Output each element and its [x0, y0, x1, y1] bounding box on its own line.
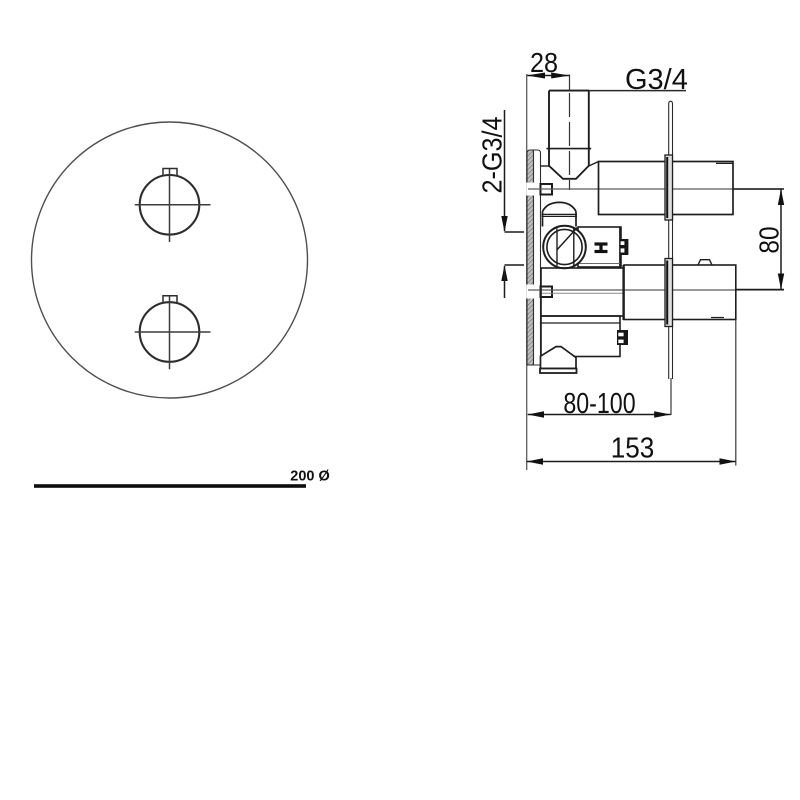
svg-text:200 Ø: 200 Ø — [290, 469, 330, 485]
mid body inner seam line — [541, 292, 623, 294]
lower handle circle — [140, 302, 200, 362]
dimension 80-100 right extension line — [670, 378, 672, 415]
faceplate circle 200mm — [32, 122, 308, 398]
dimension 28 left arrow — [527, 73, 545, 79]
lower mid body — [541, 316, 620, 357]
upper right body — [599, 162, 734, 215]
mounting tab upper — [541, 184, 553, 195]
dimension 80-100 line — [528, 414, 671, 416]
lower handle notch — [163, 296, 177, 303]
dimension 80-100 left arrow — [528, 411, 544, 417]
dimension 80-100 right arrow — [654, 411, 670, 417]
dimension 80 down arrow — [778, 274, 784, 290]
lower handle crosshair horizontal — [135, 331, 211, 333]
lower handle crosshair vertical — [169, 295, 171, 369]
wall plate (hatched) — [526, 150, 540, 365]
diameter reference line — [34, 484, 306, 488]
dimension 153 line — [527, 461, 736, 463]
dimension 153 left arrow — [527, 458, 543, 464]
dimension 2-G3/4 line lower segment — [504, 266, 506, 298]
svg-text:80: 80 — [753, 226, 785, 253]
dimension 153 right arrow — [720, 458, 736, 464]
upper handle circle — [140, 175, 200, 235]
finished wall trim plate (thin) — [665, 101, 673, 379]
port centerline upper — [528, 188, 782, 190]
pipe funnel (cone to valve body) — [549, 166, 589, 179]
dimension 28 line — [527, 75, 570, 77]
lower right body — [624, 260, 736, 320]
cartridge dome cap — [542, 202, 578, 226]
mounting tab lower — [541, 287, 553, 298]
dimension 2-G3/4 down arrow — [501, 216, 507, 232]
dimension 2-G3/4 line upper segment — [504, 110, 506, 231]
dimension 2-G3/4 tick lower — [505, 264, 525, 266]
upper handle notch — [163, 169, 177, 176]
label H (rotated) — [595, 244, 608, 252]
dimension 80 line — [780, 189, 782, 290]
G3/4 leader line — [570, 90, 686, 92]
mid body — [541, 265, 624, 320]
valve cap circle (temperature valve) — [543, 226, 586, 269]
port centerline lower — [528, 289, 784, 291]
upper handle crosshair horizontal — [135, 204, 211, 206]
lower outlet cap — [540, 347, 577, 373]
dimension 153 right extension line — [735, 320, 737, 466]
transition diagonal pipe to body — [589, 162, 599, 167]
pipe centerline (dashed) — [569, 75, 571, 91]
dimension 28 right arrow — [551, 73, 569, 79]
svg-text:2-G3/4: 2-G3/4 — [476, 116, 508, 193]
extension line left (wall face, shared by dims 28/80-100/153) — [526, 74, 528, 470]
dimension 2-G3/4 tick upper — [505, 231, 525, 233]
dimension 80 up arrow — [778, 189, 784, 205]
connector stub right of H box — [620, 239, 628, 255]
thermostat housing box (H box) — [578, 227, 621, 267]
dimension 80 leader bottom — [735, 289, 784, 291]
dimension 2-G3/4 up arrow — [501, 265, 507, 281]
upper handle crosshair vertical — [169, 168, 171, 242]
supply pipe (top outlet) — [547, 91, 592, 166]
dimension 80 leader top — [733, 188, 784, 190]
step line plate to pipe — [541, 165, 550, 167]
connector stub lower — [617, 330, 628, 345]
svg-text:153: 153 — [611, 431, 655, 464]
